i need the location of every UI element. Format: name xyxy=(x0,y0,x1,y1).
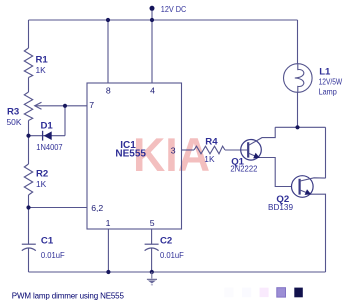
logo square 5 xyxy=(294,288,303,298)
transistor Q1 xyxy=(241,127,276,160)
resistor R4 xyxy=(194,146,225,154)
wire pin 4 stub xyxy=(151,20,153,83)
junction pin 1 on ground rail xyxy=(106,270,110,274)
junction R2 bottom node xyxy=(26,205,30,209)
wire Q2 emitter to ground rail xyxy=(310,194,326,272)
watermark KIA xyxy=(133,128,210,181)
wire wiper riser xyxy=(64,106,66,136)
wire 12V stub xyxy=(151,8,153,20)
logo square 2 xyxy=(242,288,251,298)
svg-text:R4: R4 xyxy=(205,136,218,147)
svg-text:8: 8 xyxy=(106,86,111,96)
svg-text:1K: 1K xyxy=(204,154,215,164)
node 12V DC supply terminal xyxy=(150,6,155,11)
wire pin 6,2 xyxy=(29,207,88,209)
wire Q1 emitter to Q2 base xyxy=(259,158,292,187)
wire diode branch xyxy=(29,135,66,137)
svg-text:Lamp: Lamp xyxy=(319,87,337,97)
wire lamp top xyxy=(297,20,299,64)
svg-text:5: 5 xyxy=(150,218,155,228)
svg-text:C1: C1 xyxy=(41,236,54,247)
svg-text:1K: 1K xyxy=(36,65,47,75)
svg-text:R1: R1 xyxy=(36,55,49,66)
svg-text:R3: R3 xyxy=(7,107,19,118)
svg-text:1N4007: 1N4007 xyxy=(36,142,63,152)
svg-text:6,2: 6,2 xyxy=(91,203,103,213)
svg-text:NE555: NE555 xyxy=(115,148,146,159)
svg-text:50K: 50K xyxy=(7,117,22,127)
svg-text:0.01uF: 0.01uF xyxy=(41,250,65,260)
wire lamp bottom xyxy=(297,92,299,127)
resistor R2 xyxy=(24,164,32,195)
wire left rail segment E xyxy=(28,248,30,272)
wire left rail segment D xyxy=(28,195,30,244)
junction wiper node xyxy=(63,104,67,108)
wire bottom ground rail xyxy=(29,271,326,273)
svg-text:0.01uF: 0.01uF xyxy=(160,250,184,260)
resistor R1 xyxy=(24,48,32,78)
svg-text:C2: C2 xyxy=(160,236,172,247)
wire right rail to Q2 collector xyxy=(325,127,327,178)
svg-text:3: 3 xyxy=(171,145,176,155)
logo square 3 xyxy=(260,288,269,297)
wire collector bus top right xyxy=(275,126,325,128)
wire top rail xyxy=(29,19,298,21)
wire C2 to ground rail xyxy=(151,248,153,272)
junction C2 ground node xyxy=(150,270,154,274)
junction 12V on top rail xyxy=(150,18,154,22)
svg-text:2N2222: 2N2222 xyxy=(230,163,257,173)
junction diode to rail xyxy=(26,134,30,138)
wire pin 5 drop xyxy=(151,229,153,244)
svg-text:12V/5W: 12V/5W xyxy=(319,76,343,86)
logo square 1 xyxy=(224,288,233,298)
lamp L1 xyxy=(284,64,313,93)
potentiometer R3 xyxy=(24,92,41,121)
wire pin 8 stub xyxy=(107,20,109,83)
wire left rail segment C xyxy=(28,121,30,165)
svg-text:12V DC: 12V DC xyxy=(161,5,187,14)
svg-text:4: 4 xyxy=(150,86,155,96)
svg-text:7: 7 xyxy=(89,100,94,110)
wire pin 3 to R4 xyxy=(182,149,195,151)
junction lamp to collector bus xyxy=(295,125,299,129)
capacitor C1 xyxy=(22,244,36,250)
ground xyxy=(147,272,157,285)
transistor Q2 xyxy=(292,176,326,198)
svg-text:BD139: BD139 xyxy=(268,202,293,212)
wire pin 1 drop xyxy=(107,229,109,272)
diode D1 xyxy=(43,131,52,141)
svg-text:PWM lamp dimmer using NE555: PWM lamp dimmer using NE555 xyxy=(12,291,125,300)
op-amp U1 box: IC1 NE555 timer xyxy=(87,83,182,229)
wire R4 to Q1 base xyxy=(225,149,247,151)
svg-text:D1: D1 xyxy=(41,120,54,131)
junction pin 8 on top rail xyxy=(106,18,110,22)
svg-text:1: 1 xyxy=(106,218,111,228)
wire pin 7 to wiper xyxy=(36,105,88,107)
wire left rail segment A xyxy=(28,20,30,48)
svg-text:1K: 1K xyxy=(36,179,47,189)
capacitor C2 xyxy=(145,244,159,250)
svg-text:R2: R2 xyxy=(36,169,48,180)
logo square 4 xyxy=(277,288,286,297)
wire left rail segment B xyxy=(28,78,30,93)
